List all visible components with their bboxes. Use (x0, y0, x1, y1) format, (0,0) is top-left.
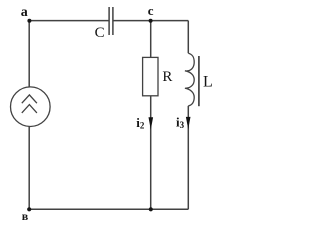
svg-text:в: в (22, 209, 29, 222)
svg-text:c: c (148, 3, 154, 18)
svg-text:L: L (203, 74, 213, 91)
svg-text:i2: i2 (136, 115, 145, 130)
svg-text:C: C (95, 25, 105, 41)
svg-text:R: R (162, 69, 172, 85)
svg-text:i3: i3 (176, 115, 185, 131)
svg-text:a: a (21, 5, 28, 20)
